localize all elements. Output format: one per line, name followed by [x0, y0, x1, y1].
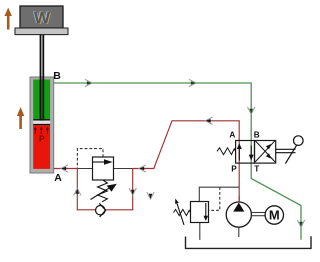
red stub from valve P into pump (over pump outline)	[238, 196, 240, 202]
check valve	[96, 203, 106, 217]
cylinder body	[30, 77, 54, 173]
cylinder piston	[33, 119, 50, 120]
valve left position: arrow B->T (down)	[249, 146, 254, 161]
wire: green pressure line B -> valve -> tank	[54, 83, 301, 240]
counterbalance valve body	[93, 157, 114, 180]
directional valve lever	[276, 136, 303, 164]
directional valve white fills	[236, 141, 255, 164]
pump	[226, 202, 251, 237]
flow arrow after bypass (left)	[139, 165, 146, 172]
flow arrow on green line (x=92)	[85, 79, 92, 86]
load motion arrow (beside cylinder)	[17, 107, 24, 129]
counterbalance spring adjust arrow	[91, 184, 117, 200]
wire: red line bypass junction to valve A and down to pump	[133, 121, 240, 202]
flow arrow up on bypass left vertical	[74, 189, 81, 196]
svg-text:P: P	[231, 165, 237, 174]
platform	[15, 28, 68, 35]
svg-text:W: W	[34, 9, 51, 28]
piston rod	[40, 35, 45, 121]
valve right position: crossed arrows	[255, 141, 275, 162]
svg-text:M: M	[269, 208, 280, 223]
weight W	[20, 6, 63, 28]
wire: red line cylinder A to pilot junction	[54, 168, 78, 170]
tank	[186, 236, 312, 248]
wire: black inactive segment through counterbalance valve	[77, 168, 132, 170]
relief valve spring	[174, 209, 191, 215]
motor M	[265, 206, 283, 224]
flow arrow down on bypass right vertical	[129, 188, 136, 195]
svg-text:A: A	[54, 172, 62, 184]
load motion arrow (upper left)	[5, 8, 12, 30]
directional valve borders	[236, 141, 255, 164]
wire: red bypass loop with check valve	[77, 169, 132, 210]
valve left position: arrow P->A (up)	[237, 143, 242, 160]
flow arrow into cylinder A (left)	[61, 165, 68, 172]
relief valve body	[191, 202, 209, 223]
svg-text:P: P	[39, 134, 45, 144]
counterbalance valve spring	[98, 180, 108, 202]
relief spring adjust arrow	[175, 199, 184, 225]
directional valve spring	[217, 148, 236, 155]
pressure mini arrows in red chamber	[34, 127, 49, 135]
svg-text:B: B	[53, 70, 61, 82]
relief valve pilot (dashed)	[209, 187, 220, 210]
flow arrow on green return near tank (down)	[297, 220, 304, 227]
stray flow arrow (down) near diagonal	[147, 192, 154, 199]
cylinder green chamber	[33, 80, 50, 120]
flow arrow on green vertical (down)	[248, 107, 255, 114]
counterbalance valve pilot line (dashed)	[77, 149, 103, 168]
pump-motor shaft	[251, 213, 265, 216]
cylinder red chamber	[33, 125, 50, 169]
relief valve drain + supply lines (black)	[199, 187, 239, 201]
flow arrow on red top line (left)	[206, 117, 213, 124]
svg-text:B: B	[254, 131, 260, 140]
svg-text:T: T	[254, 165, 259, 174]
flow arrow on green line (x=196)	[189, 79, 196, 86]
svg-text:A: A	[229, 131, 235, 140]
